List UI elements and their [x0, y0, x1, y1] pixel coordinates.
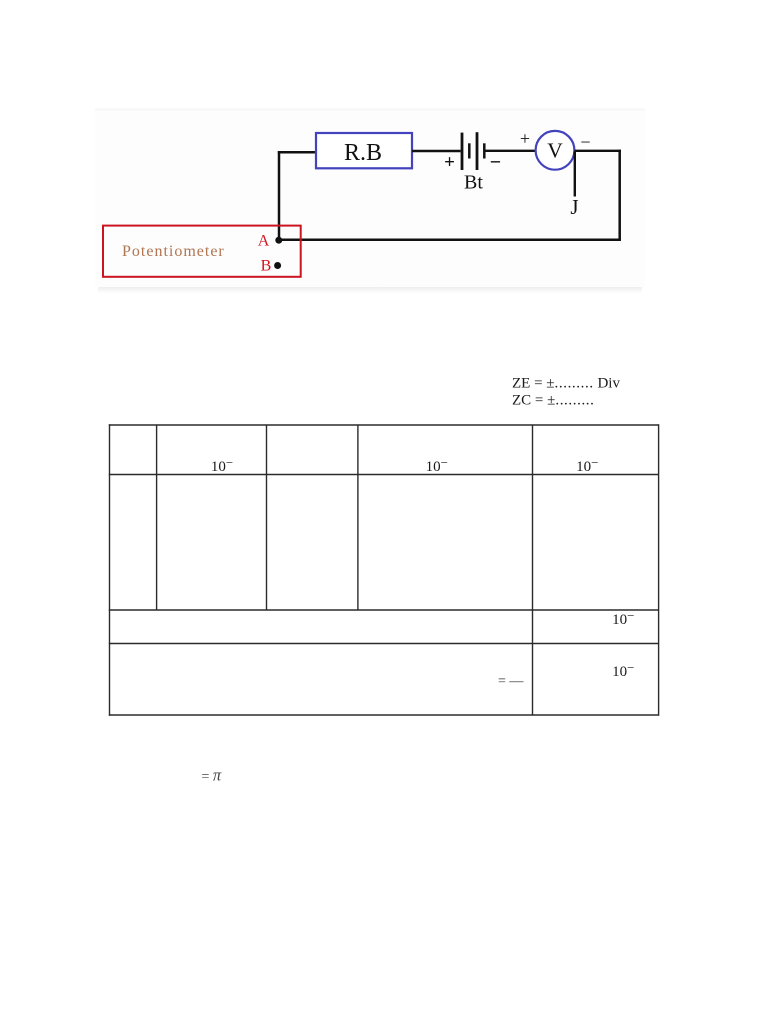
potentiometer box — [103, 226, 301, 277]
svg-text:10−: 10− — [211, 455, 233, 475]
node A junction dot — [275, 237, 282, 244]
svg-text:V: V — [547, 139, 563, 163]
wire right side down — [618, 150, 621, 241]
wire from node A up to top rail — [278, 151, 281, 240]
svg-text:= π: = π — [202, 766, 222, 785]
svg-text:Bt: Bt — [464, 172, 483, 194]
svg-text:10−: 10− — [612, 608, 634, 628]
svg-text:R.B: R.B — [344, 140, 382, 166]
wire R.B to battery — [412, 150, 461, 152]
circuit image background — [95, 110, 645, 294]
svg-text:J: J — [570, 195, 578, 219]
svg-text:10−: 10− — [612, 660, 634, 680]
svg-text:+: + — [444, 152, 455, 173]
svg-text:−: − — [580, 132, 590, 152]
wire battery to voltmeter — [486, 150, 537, 152]
resistance box R.B — [316, 133, 412, 168]
wire bottom rail back to node A — [279, 239, 621, 242]
battery Bt plates — [462, 132, 484, 170]
svg-text:ZE = ±......... Div: ZE = ±......... Div — [512, 375, 620, 391]
wire top rail to R.B — [278, 151, 316, 154]
svg-text:+: + — [520, 129, 530, 149]
svg-text:−: − — [490, 151, 501, 173]
svg-text:A: A — [258, 233, 270, 250]
svg-text:B: B — [261, 257, 272, 274]
voltmeter V — [536, 131, 575, 170]
svg-text:ZC = ±.........: ZC = ±......... — [512, 393, 595, 409]
svg-text:10−: 10− — [576, 455, 598, 475]
svg-text:= —: = — — [498, 674, 524, 689]
data table grid — [109, 424, 659, 715]
svg-text:Potentiometer: Potentiometer — [122, 243, 225, 260]
wire voltmeter to right corner — [574, 150, 621, 152]
jockey wire — [574, 152, 576, 197]
node B terminal dot — [274, 262, 281, 269]
svg-text:10−: 10− — [426, 455, 448, 475]
